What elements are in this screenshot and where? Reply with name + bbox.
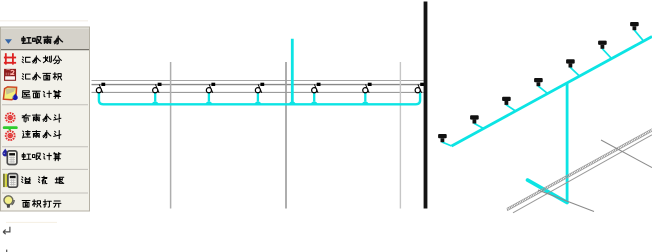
column grid line 3 (2D plan) [399, 62, 401, 209]
menu item 面积打开 : text [22, 200, 61, 208]
menu item 布雨水斗 : icon [6, 113, 15, 122]
menu separator 4 [2, 192, 88, 194]
pipe: 3D vertical downpipe [566, 83, 569, 203]
pipe: drain connector stub 3 (3D) [506, 103, 515, 111]
rain drain symbol D4 (3D) [534, 78, 543, 86]
menu separator 2 [2, 146, 88, 148]
rain drain symbol D3 (2D) [206, 83, 215, 93]
pipe: drain tail drop 2 (2D) [154, 93, 156, 102]
rain drain symbol D2 (2D) [153, 83, 162, 93]
paragraph return mark 1 [3, 227, 10, 235]
rain drain symbol D7 (3D) [630, 22, 639, 30]
pipe: drain tail drop 4 (2D) [257, 93, 259, 102]
menu item 汇水划分 : text [22, 56, 61, 64]
menu item 虹吸计算 : icon [2, 149, 8, 157]
rain drain symbol D5 (2D) [312, 83, 321, 93]
pipe: drain connector stub 4 (3D) [538, 85, 547, 94]
parallel eave line (3D iso) [513, 135, 652, 213]
column grid line 1 (2D plan) [170, 62, 172, 209]
menu separator 1 [2, 104, 88, 106]
menu item 虹吸计算 : text [22, 153, 61, 161]
pipe: 3D bottom elbow running NW [528, 180, 568, 203]
rain drain symbol D2 (3D) [470, 115, 479, 123]
header collapse arrow [5, 39, 12, 44]
pipe: drain connector stub 5 (3D) [570, 66, 579, 76]
rain drain symbol D7 (2D) [415, 83, 424, 93]
pipe: 3D sloped collector main [452, 37, 652, 147]
menu item 布雨水斗 : text [22, 114, 61, 122]
pipe: drain connector stub 7 (3D) [634, 29, 643, 41]
menu item 连雨水斗 : icon [3, 126, 18, 130]
pipe: drain tail drop 6 (2D) [364, 93, 366, 102]
menu separator 3 [2, 168, 88, 170]
rain drain symbol D5 (3D) [566, 59, 575, 67]
crossing grid line C (3D iso) [538, 190, 594, 212]
menu item 溢 流 堰 : icon [3, 174, 7, 187]
pipe: drain connector stub 2 (3D) [474, 122, 483, 129]
faint page rule top [0, 20, 88, 22]
menu item 汇水面积 : text [22, 73, 61, 80]
thick black frame divider line [424, 2, 428, 209]
faint page rule [6, 221, 57, 223]
menu item 汇水面积 : icon [5, 69, 16, 80]
rain drain symbol D3 (3D) [502, 97, 511, 105]
toolbar panel background [1, 27, 90, 211]
pipe: drain tail drop 3 (2D) [208, 93, 210, 102]
rain drain symbol D1 (2D) [96, 83, 105, 93]
roof edge line 1 (2D plan) [92, 80, 424, 82]
pipe: drain connector stub 6 (3D) [602, 47, 611, 58]
menu item 面积打开 : icon [4, 196, 14, 208]
column grid line 2 (2D plan) [285, 62, 287, 209]
paragraph return mark 2 (clipped) [6, 250, 8, 252]
menu item 屋面计算 : icon [3, 87, 17, 100]
toolbar header bar 虹吸雨水 [1, 28, 89, 50]
rain drain symbol D1 (3D) [438, 134, 447, 142]
rain drain symbol D6 (2D) [363, 83, 372, 93]
pipe: outlet riser (2D) [291, 39, 294, 104]
roof beam hatched band (3D iso) rails [507, 129, 652, 211]
roof edge line 2 (2D plan) [92, 84, 424, 86]
menu item 汇水划分 : icon [4, 53, 16, 64]
pipe: drain connector stub 1 (3D) [442, 141, 451, 146]
rain drain symbol D4 (2D) [255, 83, 264, 93]
crossing grid line B (3D iso) [601, 140, 652, 168]
menu item 屋面计算 : text [22, 90, 61, 98]
pipe: 2D collector main run with end elbows [99, 93, 420, 105]
pipe: drain tail drop 5 (2D) [313, 93, 315, 102]
roof beam hatch ticks (3D iso) [507, 130, 652, 210]
pipe: riser junction fillet (2D) [288, 101, 297, 105]
menu item 溢 流 堰 : text [22, 176, 64, 184]
header title text 虹吸雨水 [22, 36, 63, 44]
menu item 连雨水斗 : text [22, 131, 61, 139]
rain drain symbol D6 (3D) [598, 41, 607, 49]
roof edge line 3 (2D plan) [92, 91, 424, 93]
